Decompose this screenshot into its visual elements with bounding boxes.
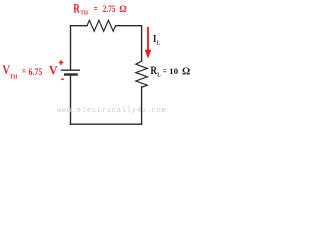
svg-text:www.electrically4u.com: www.electrically4u.com bbox=[57, 107, 167, 115]
svg-text:V: V bbox=[3, 63, 10, 77]
svg-text:L: L bbox=[157, 72, 160, 79]
svg-text:=: = bbox=[163, 67, 167, 77]
svg-text:Ω: Ω bbox=[119, 5, 127, 15]
svg-text:TH: TH bbox=[80, 10, 88, 17]
svg-text:6.75: 6.75 bbox=[29, 68, 43, 78]
svg-text:=: = bbox=[94, 4, 98, 15]
svg-text:2.75: 2.75 bbox=[103, 4, 116, 14]
svg-text:10: 10 bbox=[169, 66, 178, 76]
svg-text:Ω: Ω bbox=[182, 66, 190, 77]
svg-text:I: I bbox=[153, 33, 156, 45]
svg-text:V: V bbox=[49, 63, 58, 77]
svg-text:=: = bbox=[22, 67, 26, 78]
svg-text:L: L bbox=[157, 39, 160, 46]
svg-text:TH: TH bbox=[10, 74, 18, 81]
